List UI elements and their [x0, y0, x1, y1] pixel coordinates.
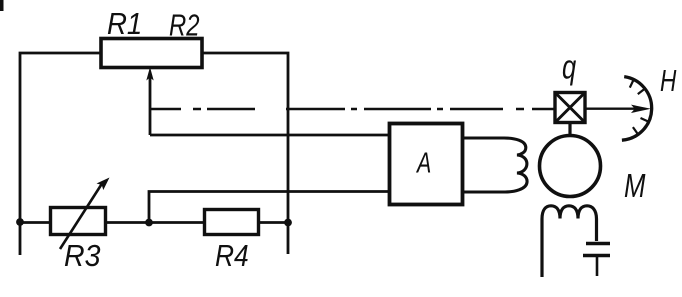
svg-text:M: M: [624, 168, 646, 205]
capacitor bottom lead: [596, 256, 599, 277]
resistor R4 body: [205, 210, 259, 235]
wire R4 left lead: [149, 221, 204, 224]
capacitor bottom plate: [583, 254, 610, 258]
svg-text:R3: R3: [64, 239, 101, 273]
wire R3 to node: [106, 221, 150, 224]
svg-text:R1: R1: [107, 7, 142, 42]
wire left vertical with top lead to R1R2: [20, 53, 100, 255]
inductor coupling winding at amplifier output: [463, 138, 527, 192]
wire arrow to meter H: [585, 108, 640, 110]
scan artifact top-left corner: [0, 0, 4, 11]
transducer q box: [555, 93, 585, 123]
svg-text:H: H: [660, 62, 677, 97]
capacitor top plate: [586, 242, 610, 246]
svg-text:A: A: [415, 147, 431, 179]
wire wiper to amplifier top input: [150, 134, 389, 137]
svg-text:q: q: [562, 49, 576, 86]
inductor winding below motor: [542, 206, 597, 277]
arrow of variable resistor R3: [60, 182, 103, 249]
svg-text:R2: R2: [169, 7, 200, 42]
wire R4 right lead: [259, 221, 289, 224]
node R3-R4 junction: [145, 219, 153, 227]
wiper arrow of potentiometer: [149, 76, 152, 135]
wire junction up to amplifier bottom input: [149, 192, 389, 223]
node right junction: [284, 219, 292, 227]
op-amp U1 amplifier box A: [390, 124, 463, 205]
node left junction: [16, 218, 24, 226]
resistor R3 body: [51, 208, 106, 235]
meter tick marks: [630, 80, 649, 135]
meter H scale arc: [622, 77, 652, 141]
svg-text:R4: R4: [215, 239, 249, 273]
wire q box to motor stem: [568, 123, 571, 136]
resistor R1 R2 potentiometer body: [101, 39, 202, 68]
motor M circle: [540, 136, 601, 197]
wire mechanical link dash-dot: [150, 108, 555, 111]
wire pot right lead down to R4: [202, 53, 288, 254]
wire R3 left lead: [20, 221, 50, 224]
